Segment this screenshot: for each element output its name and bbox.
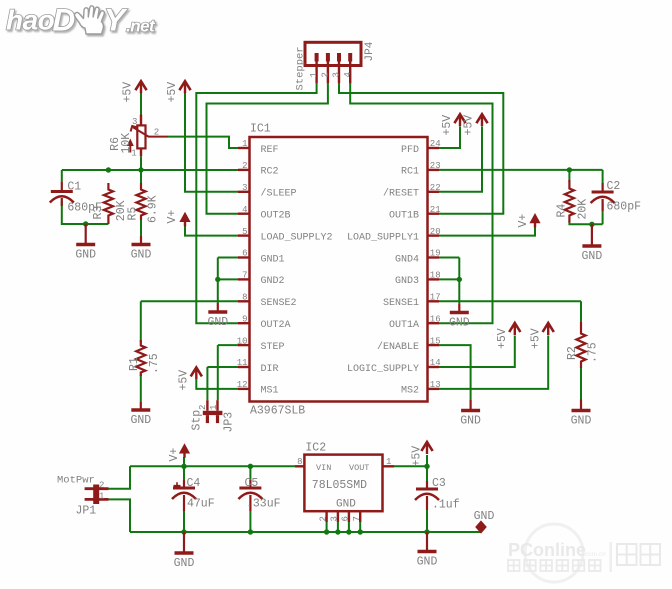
svg-text:LOGIC_SUPPLY: LOGIC_SUPPLY	[347, 364, 419, 375]
svg-text:10: 10	[237, 336, 248, 346]
svg-text:LOAD_SUPPLY2: LOAD_SUPPLY2	[261, 232, 333, 243]
wire IC2 VOUT to +5V C3	[394, 465, 427, 467]
svg-text:8: 8	[242, 293, 247, 303]
wire +5V to R6 pin3	[140, 93, 142, 115]
ground GND C3	[418, 550, 437, 554]
IC1 pin 19 stub	[428, 256, 440, 258]
svg-text:GND1: GND1	[261, 254, 285, 265]
wire C5 top	[249, 466, 251, 481]
svg-text:19: 19	[430, 249, 441, 259]
wire /RESET pin22 to +5V	[439, 127, 482, 192]
svg-text:STEP: STEP	[261, 342, 285, 353]
junction IC2 pin 2 gnd rail	[324, 529, 329, 534]
IC1 pin 3 stub	[238, 191, 250, 193]
svg-text:20: 20	[430, 227, 441, 237]
junction IC2 pin 6 gnd rail	[346, 529, 351, 534]
svg-text:Y: Y	[104, 2, 128, 38]
svg-text:20K: 20K	[576, 199, 589, 220]
svg-text:6.9K: 6.9K	[146, 195, 159, 223]
svg-text:GND: GND	[131, 249, 152, 262]
svg-text:JP3: JP3	[223, 412, 236, 433]
IC1 pin 20 stub	[428, 234, 440, 236]
ground net flag GND	[476, 522, 486, 533]
IC1 pin 10 stub	[238, 344, 250, 346]
IC1 pin 14 stub	[428, 366, 440, 368]
svg-text:R1: R1	[128, 357, 141, 371]
ground GND /ENABLE	[461, 409, 480, 413]
svg-text:OUT1B: OUT1B	[389, 211, 419, 222]
svg-text:+5V: +5V	[166, 82, 179, 103]
V+ supply at LOAD_SUPPLY2	[179, 212, 190, 222]
svg-text:V+: V+	[168, 448, 181, 462]
wire MS2 pin13 to +5V	[439, 336, 548, 389]
svg-text:78L05SMD: 78L05SMD	[312, 479, 367, 492]
svg-text:GND: GND	[75, 249, 96, 262]
wire R1 bottom to ground	[140, 375, 142, 403]
svg-text:MS2: MS2	[401, 386, 419, 397]
PConline watermark	[525, 524, 583, 582]
ground GND IC1 GND2	[208, 310, 227, 314]
wire GND2 node to ground	[217, 279, 219, 303]
svg-text:4: 4	[343, 72, 353, 77]
svg-text:C2: C2	[607, 180, 621, 193]
svg-text:1: 1	[242, 139, 247, 149]
svg-text:2: 2	[242, 161, 247, 171]
IC1 pin 4 stub	[238, 212, 250, 214]
junction R4/C2 ground node	[589, 222, 594, 227]
wire JP4 pin4 to OUT1A	[350, 83, 492, 323]
svg-text:9: 9	[242, 314, 247, 324]
svg-text:21: 21	[430, 205, 441, 215]
junction C5 gnd rail	[248, 529, 253, 534]
junction GND3/GND4 node	[457, 277, 462, 282]
svg-text:7: 7	[242, 271, 247, 281]
junction IC2 pin 3 gnd rail	[335, 529, 340, 534]
haoDY.net logo	[6, 2, 156, 38]
IC1 pin 21 stub	[428, 212, 440, 214]
svg-text:MotPwr: MotPwr	[57, 475, 95, 487]
junction C3 gnd rail	[424, 529, 429, 534]
svg-text:SENSE2: SENSE2	[261, 298, 297, 309]
wire LOAD_SUPPLY1 pin20 to V+	[439, 227, 535, 236]
svg-text:R4: R4	[556, 204, 569, 218]
connector JP4 Stepper	[305, 42, 361, 65]
svg-text:.net: .net	[126, 17, 156, 36]
wire C1 bottom to R3 bottom	[62, 201, 109, 224]
svg-text:GND: GND	[449, 317, 470, 330]
junction C4 V+ rail	[181, 464, 186, 469]
wire +5V arrow down	[426, 455, 428, 466]
wire GND1 pin6	[218, 257, 238, 259]
IC1 pin 1 stub	[238, 147, 250, 149]
resistor R5 6.9K	[136, 183, 145, 220]
IC1 pin 7 stub	[238, 278, 250, 280]
svg-text:C4: C4	[187, 477, 201, 490]
svg-text:3: 3	[332, 72, 342, 77]
svg-text:DIR: DIR	[261, 364, 279, 375]
IC1 pin 2 stub	[238, 169, 250, 171]
svg-text:2: 2	[198, 405, 208, 410]
wire to C2 top	[602, 170, 604, 192]
svg-text:1: 1	[209, 405, 219, 410]
IC1 pin 17 stub	[428, 300, 440, 302]
svg-text:GND: GND	[207, 316, 228, 329]
wire SENSE2 pin8 to R1	[141, 300, 238, 302]
wire LOGIC_SUPPLY pin14 to +5V	[439, 336, 515, 368]
svg-text:4: 4	[242, 205, 247, 215]
svg-text:R2: R2	[566, 346, 579, 360]
capacitor C2 680pF	[592, 191, 614, 194]
svg-text:RC1: RC1	[401, 167, 419, 178]
svg-text:Stp: Stp	[191, 410, 204, 431]
junction C1/R3 ground node	[83, 221, 88, 226]
wire V+ to LOAD_SUPPLY2 pin5	[185, 222, 238, 236]
svg-text:2: 2	[318, 516, 328, 521]
IC2 gnd pin 3 stub	[337, 511, 339, 522]
svg-text:.33uF: .33uF	[246, 498, 281, 511]
junction RC1 node	[567, 167, 572, 172]
wire R4 bottom to C2 bottom	[569, 221, 602, 224]
svg-text:10K: 10K	[120, 133, 133, 154]
svg-text:8: 8	[297, 457, 302, 467]
IC2 gnd pin 7 stub	[359, 511, 361, 522]
svg-text:OUT2B: OUT2B	[261, 211, 291, 222]
svg-text:+5V: +5V	[178, 370, 191, 391]
wire node to R5 top	[140, 170, 142, 184]
svg-text:5: 5	[242, 227, 247, 237]
svg-text:D: D	[53, 2, 76, 38]
IC1 pin 6 stub	[238, 256, 250, 258]
wire /ENABLE pin15 to ground	[439, 345, 471, 400]
svg-text:GND: GND	[417, 556, 438, 569]
IC1 pin 18 stub	[428, 278, 440, 280]
wire R6 wiper to REF pin1	[168, 137, 238, 148]
svg-text:13: 13	[430, 380, 441, 390]
svg-text:OUT1A: OUT1A	[389, 320, 419, 331]
connector JP3 Stp	[206, 400, 208, 411]
svg-text:GND3: GND3	[395, 276, 419, 287]
+5V supply at /SLEEP	[179, 81, 190, 90]
svg-text:6: 6	[341, 516, 351, 521]
svg-text:JP1: JP1	[76, 505, 97, 518]
wire GND1 to GND2 node	[217, 258, 219, 280]
+5V supply at MS2	[543, 323, 554, 332]
svg-text:2: 2	[321, 72, 331, 77]
svg-text:A3967SLB: A3967SLB	[250, 405, 305, 418]
capacitor C1 680pF	[51, 190, 73, 193]
wire STEP to JP3 pin1	[217, 345, 219, 400]
svg-text:2: 2	[99, 480, 104, 490]
wire to R4 top	[568, 170, 570, 182]
wire to C1 top	[61, 170, 63, 182]
svg-text:GND: GND	[174, 557, 195, 570]
svg-text:.75: .75	[587, 342, 600, 363]
svg-text:24: 24	[430, 139, 441, 149]
svg-text:V+: V+	[166, 210, 179, 224]
resistor R2 .75	[576, 322, 585, 368]
wire SENSE1 pin17 to R2	[439, 300, 581, 302]
svg-text:+5V: +5V	[496, 328, 509, 349]
wire R5 bottom	[140, 220, 142, 236]
svg-text:+5V: +5V	[441, 115, 454, 136]
connector JP1 MotPwr	[85, 487, 109, 490]
svg-text:hao: hao	[6, 5, 55, 36]
ground GND C1/R3	[76, 243, 95, 247]
resistor R4 20K	[565, 180, 574, 223]
junction R3/RC2	[106, 167, 111, 172]
svg-text:GND: GND	[336, 499, 356, 511]
svg-text:GND: GND	[582, 250, 603, 263]
wire to R1 top	[140, 301, 142, 341]
wire to R2 top	[580, 301, 582, 324]
wire JP1 pin1 to GND rail	[109, 499, 131, 532]
V+ supply at motor rail	[179, 443, 190, 453]
wire IC2 gnd pin	[337, 522, 339, 532]
svg-text:C1: C1	[67, 180, 81, 193]
wire JP4 pin2 to OUT2B	[207, 83, 328, 213]
junction C5 V+ rail	[248, 464, 253, 469]
+5V supply at LOGIC_SUPPLY	[509, 323, 520, 332]
svg-text:/RESET: /RESET	[383, 188, 419, 200]
wire C4 top	[183, 466, 185, 481]
wire JP4 pin3 to OUT1B	[339, 83, 503, 213]
svg-text:16: 16	[430, 314, 441, 324]
svg-text:MS1: MS1	[261, 386, 279, 397]
ground GND IC1 GND3	[450, 311, 469, 315]
wire JP1 pin2 to V+ rail	[109, 466, 131, 488]
wire node RC2	[62, 169, 238, 171]
wire STEP pin10	[218, 344, 238, 346]
ground GND R5	[132, 243, 151, 247]
svg-text:GND: GND	[130, 414, 151, 427]
svg-text:Stepper: Stepper	[295, 46, 307, 90]
IC1 pin 13 stub	[428, 388, 440, 390]
IC2 pin 1 VOUT stub	[383, 465, 395, 467]
wire GND3 node to ground	[458, 279, 460, 304]
svg-text:7: 7	[352, 516, 362, 521]
svg-text:23: 23	[430, 161, 441, 171]
wire PFD pin24 to +5V	[439, 127, 460, 149]
regulator IC2 78L05SMD body	[304, 455, 382, 512]
wire DIR pin11	[207, 366, 238, 368]
svg-text:47uF: 47uF	[187, 498, 215, 511]
wire C3 top	[426, 466, 428, 484]
wire GND3 pin18	[439, 278, 459, 280]
svg-text:3: 3	[330, 516, 340, 521]
wire GND rail	[130, 531, 481, 533]
svg-text:.1uf: .1uf	[432, 499, 460, 512]
svg-text:680pF: 680pF	[607, 201, 642, 214]
svg-text:VOUT: VOUT	[349, 463, 369, 473]
junction R5/R6/RC2	[138, 167, 143, 172]
IC1 pin 15 stub	[428, 344, 440, 346]
hand icon in logo	[75, 6, 105, 34]
wire GND2 pin7	[218, 278, 238, 280]
svg-text:18: 18	[430, 271, 441, 281]
svg-text:GND: GND	[571, 415, 592, 428]
svg-text:/ENABLE: /ENABLE	[377, 341, 419, 353]
IC1 pin 23 stub	[428, 169, 440, 171]
wire IC2 gnd pin	[348, 522, 350, 532]
wire GND4 pin19	[439, 257, 459, 259]
svg-text:GND4: GND4	[395, 254, 419, 265]
wire C3 bottom	[426, 510, 428, 532]
svg-text:LOAD_SUPPLY1: LOAD_SUPPLY1	[347, 232, 419, 243]
IC1 pin 9 stub	[238, 322, 250, 324]
ground GND R4/C2	[582, 244, 601, 248]
svg-text:IC1: IC1	[250, 123, 271, 136]
wire C2 bottom	[602, 202, 604, 224]
IC1 pin 22 stub	[428, 191, 440, 193]
svg-text:JP4: JP4	[364, 41, 376, 61]
IC2 pin 8 VIN stub	[295, 465, 304, 467]
IC1 pin 24 stub	[428, 147, 440, 149]
svg-text:IC2: IC2	[305, 442, 326, 455]
svg-text:RC2: RC2	[261, 167, 279, 178]
junction VOUT +5V C3	[424, 464, 429, 469]
svg-text:1: 1	[309, 72, 319, 77]
svg-text:VIN: VIN	[316, 463, 331, 473]
IC1 pin 8 stub	[238, 300, 250, 302]
svg-text:GND: GND	[474, 510, 495, 523]
resistor R3 20K	[104, 183, 113, 224]
IC1 pin 16 stub	[428, 322, 440, 324]
wire V+ arrow to rail	[183, 457, 185, 466]
svg-text:2: 2	[154, 128, 159, 138]
svg-text:3: 3	[132, 117, 137, 127]
IC2 gnd pin 6 stub	[348, 511, 350, 522]
svg-text:R5: R5	[126, 207, 139, 221]
wire DIR to JP3 pin2	[206, 367, 208, 400]
ground GND R2	[572, 409, 591, 413]
svg-text:/SLEEP: /SLEEP	[261, 188, 297, 200]
resistor R1 .75	[136, 340, 145, 376]
svg-text:C3: C3	[432, 477, 446, 490]
svg-text:PFD: PFD	[401, 145, 419, 156]
junction C4 gnd rail	[181, 529, 186, 534]
wire C5 bottom	[249, 511, 251, 532]
IC1 pin 5 stub	[238, 234, 250, 236]
svg-text:PConline: PConline	[508, 540, 586, 560]
V+ supply at LOAD_SUPPLY1	[529, 213, 540, 223]
IC2 gnd pin 2 stub	[325, 511, 327, 522]
svg-text:R3: R3	[92, 206, 105, 220]
IC1 pin 11 stub	[238, 366, 250, 368]
junction GND1/GND2	[215, 277, 220, 282]
svg-text:1: 1	[99, 492, 104, 502]
svg-text:C5: C5	[245, 477, 259, 490]
resistor R6 10K potentiometer	[140, 115, 142, 126]
capacitor C4 47uF polarized	[173, 487, 195, 490]
wire IC2 gnd pin	[359, 522, 361, 532]
wire C4 bottom	[183, 511, 185, 532]
svg-text:22: 22	[430, 183, 441, 193]
svg-text:GND: GND	[460, 415, 481, 428]
ground GND R1	[131, 408, 150, 412]
wire R2 bottom to ground	[580, 367, 582, 400]
svg-text:REF: REF	[261, 145, 279, 156]
wire IC2 gnd pin	[326, 522, 328, 532]
svg-text:3: 3	[242, 183, 247, 193]
wire +5V to /SLEEP pin3	[185, 93, 238, 192]
wire +5V to MS1 pin12	[196, 380, 238, 389]
svg-text:6: 6	[242, 249, 247, 259]
svg-text:SENSE1: SENSE1	[383, 298, 419, 309]
svg-text:+5V: +5V	[411, 446, 424, 467]
ground GND C4	[175, 551, 194, 555]
wire GND4 to GND3 node	[458, 258, 460, 280]
svg-text:V+: V+	[517, 214, 530, 228]
+5V supply at R6	[135, 81, 146, 90]
svg-text:OUT2A: OUT2A	[261, 320, 291, 331]
svg-text:1: 1	[386, 457, 391, 467]
wire JP4 pin1 to OUT2A	[196, 83, 316, 323]
+5V supply at VOUT	[421, 442, 432, 451]
svg-text:+5V: +5V	[122, 82, 135, 103]
svg-text:12: 12	[237, 380, 248, 390]
+5V supply at /RESET	[476, 114, 487, 123]
capacitor C5 .33uF	[239, 487, 261, 490]
svg-text:.75: .75	[148, 353, 161, 374]
capacitor C3 .1uf	[416, 488, 438, 491]
svg-text:11: 11	[237, 358, 248, 368]
+5V supply at PFD	[454, 114, 465, 123]
svg-text:+5V: +5V	[463, 115, 476, 136]
svg-text:15: 15	[430, 336, 441, 346]
svg-text:GND2: GND2	[261, 276, 285, 287]
svg-text:.com.cn: .com.cn	[583, 551, 606, 558]
IC1 pin 12 stub	[238, 388, 250, 390]
op-amp U1 : IC1 A3967SLB body	[250, 137, 428, 402]
wire V+ rail to IC2 VIN	[130, 465, 295, 467]
wire R6 pin1 to node	[140, 156, 142, 170]
+5V supply at MS1	[191, 367, 202, 376]
svg-text:14: 14	[430, 358, 441, 368]
svg-text:+5V: +5V	[529, 328, 542, 349]
wire RC1 pin23 to R4 C2	[439, 169, 603, 171]
junction IC2 pin 7 gnd rail	[358, 529, 363, 534]
svg-text:17: 17	[430, 293, 441, 303]
